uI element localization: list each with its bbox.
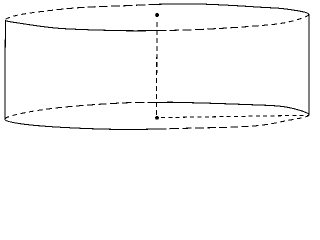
cylinder bottom rim: hidden front-right quarter (dashed) <box>157 115 309 129</box>
wireframe cylinder figure <box>0 0 314 136</box>
dashed vertical axis between top and bottom centers <box>156 22 158 115</box>
cylinder bottom rim: back-right quarter (solid) <box>157 102 309 115</box>
cylinder bottom rim: front-left quarter (solid) <box>5 119 157 129</box>
bottom center point <box>155 116 159 120</box>
cylinder bottom rim: hidden back-left quarter (dashed) <box>5 102 157 119</box>
left side edge of cylinder <box>4 20 7 119</box>
dashed radius from bottom center to right rim <box>161 115 308 117</box>
cylinder top rim: hidden front-right quarter (dashed) <box>157 14 309 30</box>
cylinder top rim: front-left quarter (solid) <box>5 20 157 31</box>
cylinder top rim: back-right quarter (solid) <box>158 4 309 14</box>
top center point <box>155 13 159 17</box>
right side edge of cylinder <box>308 14 310 115</box>
cylinder top rim: hidden back-left quarter (dashed) <box>5 4 158 20</box>
